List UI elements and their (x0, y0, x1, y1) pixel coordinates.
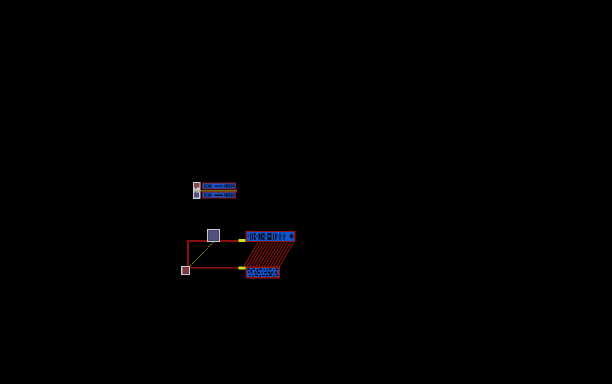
wire (olive dashed guide net) (190, 242, 213, 266)
resistor R1 glyphs (204, 184, 234, 187)
resistor R2 glyphs (204, 193, 234, 196)
pin pad 2 (239, 267, 246, 270)
bottom cluster (181, 229, 295, 279)
component U1 (dual resistor pack symbol, top cluster) (193, 182, 237, 199)
wire (bottom horizontal net) (190, 267, 239, 269)
wire (olive net between rows of U1) (201, 190, 237, 191)
resistor R1 (top row body) (202, 183, 236, 190)
IC U3 label glyphs (248, 268, 279, 276)
IC U2 (wide blue block) (246, 231, 296, 242)
marker (brown flag icon) (194, 183, 199, 188)
node dots (195, 190, 196, 191)
wire (top horizontal net) (187, 240, 239, 242)
pin header box U1 left (193, 182, 201, 199)
node A (purple junction square) (207, 229, 220, 242)
marker (slate flag icon) (195, 190, 196, 193)
pin stub (red, right side of U1) (236, 188, 237, 191)
pin pad 1 (239, 239, 246, 242)
IC U2 label glyphs (248, 233, 294, 240)
node B (brown junction square) (181, 266, 190, 275)
wire (left vertical net) (187, 240, 189, 267)
resistor R2 (bottom row body) (202, 192, 236, 199)
bus (red hatch ratsnest between U2 and U3) (244, 242, 294, 267)
IC U3 (small blue block) (246, 267, 281, 279)
